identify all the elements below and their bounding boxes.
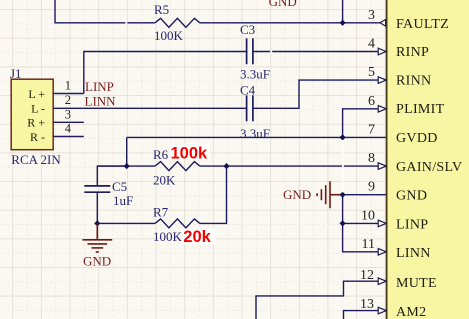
wire PLIMIT pin6 stub with vertical down to GVDD junction <box>343 109 386 138</box>
erased wire gap artifact on RINP row <box>270 50 272 52</box>
pin 5 input arrow <box>378 77 386 84</box>
svg-text:GND: GND <box>83 254 111 269</box>
svg-text:J1: J1 <box>10 66 22 81</box>
svg-text:3.3uF: 3.3uF <box>240 66 270 81</box>
junction R6 right <box>223 163 229 169</box>
resistor R6 <box>155 162 200 171</box>
wire vertical GVDD to R6 row <box>126 137 128 166</box>
svg-text:7: 7 <box>368 122 375 137</box>
wire FAULTZ row right segment <box>200 22 386 24</box>
svg-text:RCA 2IN: RCA 2IN <box>11 152 61 167</box>
svg-text:100K: 100K <box>153 229 183 244</box>
wire R7 row right with riser to R6 row <box>200 166 227 223</box>
svg-text:R +: R + <box>27 116 45 130</box>
svg-text:GND: GND <box>396 189 427 204</box>
junction at pin 3 <box>339 20 345 26</box>
wire R6 row left <box>97 165 155 167</box>
capacitor C3 <box>246 38 248 64</box>
wire RINP row from corner to C3 <box>84 52 246 94</box>
wire MUTE pin 12 run <box>256 281 386 319</box>
svg-text:GND: GND <box>283 187 311 202</box>
svg-text:LINP: LINP <box>396 217 428 232</box>
wire C3 to pin 4 <box>254 51 387 53</box>
svg-text:GAIN/SLV: GAIN/SLV <box>396 160 462 175</box>
wire GND pin 9 <box>343 194 386 196</box>
erased wire ghost (white) between pin7 and pin9 junctions <box>342 140 344 192</box>
svg-text:L -: L - <box>31 101 45 115</box>
junction C5 bottom <box>94 220 100 226</box>
svg-text:3.3uF: 3.3uF <box>240 126 270 141</box>
svg-text:R -: R - <box>30 130 45 144</box>
svg-text:20k: 20k <box>183 228 211 246</box>
svg-text:R7: R7 <box>153 205 169 220</box>
svg-text:R6: R6 <box>153 147 169 162</box>
wire C5 bottom segment <box>96 193 98 224</box>
wire vertical GND junction down to LINN pin11 <box>343 195 386 252</box>
svg-text:13: 13 <box>360 297 374 312</box>
svg-text:6: 6 <box>368 94 375 109</box>
svg-text:3: 3 <box>368 8 375 23</box>
pin 10 input arrow <box>378 220 386 227</box>
wire vertical to top edge <box>342 0 344 23</box>
svg-text:12: 12 <box>360 268 374 283</box>
pin 6 input arrow <box>378 106 386 113</box>
wire R7 row left <box>97 222 155 224</box>
svg-text:1: 1 <box>65 79 71 93</box>
svg-text:C5: C5 <box>112 179 127 194</box>
svg-text:100K: 100K <box>154 28 184 43</box>
connector J1 body <box>11 79 53 150</box>
resistor R5 <box>155 18 200 27</box>
svg-text:LINP: LINP <box>85 79 114 94</box>
svg-text:C3: C3 <box>240 22 255 37</box>
svg-text:20K: 20K <box>153 172 176 187</box>
svg-text:FAULTZ: FAULTZ <box>396 17 449 32</box>
erased wire gap artifact on FAULTZ row <box>125 22 127 24</box>
junction R6 left <box>124 163 130 169</box>
svg-text:RINN: RINN <box>396 73 431 88</box>
wire R6 row right to pin 8 <box>200 165 386 167</box>
svg-text:100k: 100k <box>171 145 209 163</box>
svg-text:PLIMIT: PLIMIT <box>396 102 445 117</box>
junction at pin 10 <box>339 220 345 226</box>
ground symbol bottom (power port GND) <box>82 223 112 252</box>
svg-text:8: 8 <box>368 151 375 166</box>
svg-text:11: 11 <box>362 237 375 252</box>
pin 4 input arrow <box>378 48 386 55</box>
svg-text:5: 5 <box>368 65 375 80</box>
junction at pin 7 <box>339 134 345 140</box>
wire LINN row from J1 pin2 to C4 <box>84 107 246 109</box>
svg-text:2: 2 <box>65 93 71 107</box>
white paste-over behind red 20k annotation <box>182 229 216 244</box>
svg-text:4: 4 <box>368 37 375 52</box>
svg-text:MUTE: MUTE <box>396 276 437 291</box>
wire C5 top segment <box>97 166 126 185</box>
J1 pin 2 stub <box>53 107 84 109</box>
pin 11 input arrow <box>378 249 386 256</box>
J1 pin 4 stub <box>53 136 84 138</box>
white paste-over behind red 100k annotation <box>170 144 210 161</box>
wire LINP pin 10 <box>343 222 386 224</box>
svg-text:L +: L + <box>28 87 45 101</box>
pin 12 input arrow <box>378 278 386 285</box>
wire C4 to riser and RINN row <box>254 80 387 108</box>
wire AM2 pin 13 run <box>344 311 387 319</box>
wire FAULTZ row left segment with corner from top edge <box>55 0 155 23</box>
pin 8 input arrow <box>378 163 386 170</box>
J1 pin 3 stub <box>53 121 84 123</box>
svg-text:4: 4 <box>65 122 72 136</box>
junction at pin 9 <box>339 192 345 198</box>
wire GVDD row <box>127 136 386 138</box>
svg-text:GND: GND <box>269 0 297 9</box>
capacitor C4 <box>246 95 248 121</box>
svg-text:AM2: AM2 <box>396 305 426 319</box>
J1 pin 1 stub <box>53 93 84 95</box>
svg-text:10: 10 <box>361 208 375 223</box>
pin 3 output arrow <box>380 20 386 27</box>
svg-text:LINN: LINN <box>85 93 117 108</box>
resistor R7 <box>155 219 200 228</box>
svg-text:9: 9 <box>368 180 375 195</box>
svg-text:LINN: LINN <box>396 246 431 261</box>
svg-text:3: 3 <box>65 107 71 121</box>
capacitor C5 <box>84 185 110 187</box>
IC part body (right yellow box) <box>387 0 469 319</box>
svg-text:R5: R5 <box>154 2 169 17</box>
svg-text:C4: C4 <box>240 83 256 98</box>
svg-text:RINP: RINP <box>396 45 429 60</box>
pin 13 input arrow <box>378 307 386 314</box>
ground symbol right (power port GND at pin 9) <box>317 181 343 208</box>
svg-text:1uF: 1uF <box>113 193 133 208</box>
svg-text:GVDD: GVDD <box>396 131 438 146</box>
